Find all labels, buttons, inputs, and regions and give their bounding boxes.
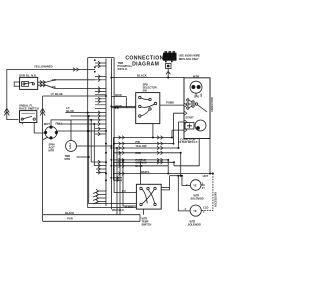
svg-text:4Y: 4Y xyxy=(202,186,205,190)
svg-text:MOT: MOT xyxy=(44,122,51,126)
svg-text:USE 90/200 WIRE: USE 90/200 WIRE xyxy=(179,54,201,58)
svg-text:SPD: SPD xyxy=(194,95,199,98)
svg-text:RED: RED xyxy=(135,151,141,155)
svg-text:YELLOW/RED: YELLOW/RED xyxy=(34,65,53,69)
svg-text:SW N.O.: SW N.O. xyxy=(118,67,129,71)
svg-text:YELLOW: YELLOW xyxy=(135,144,147,148)
svg-text:SOLENOID: SOLENOID xyxy=(188,223,201,226)
svg-text:O-BLK: O-BLK xyxy=(125,205,133,209)
svg-text:BLUE: BLUE xyxy=(66,109,74,113)
svg-text:CLD: CLD xyxy=(203,206,208,210)
svg-text:PU: PU xyxy=(122,189,126,193)
svg-text:BK: BK xyxy=(52,85,56,89)
svg-text:START: START xyxy=(186,116,195,119)
svg-text:WHT-BLK: WHT-BLK xyxy=(112,208,124,212)
svg-text:MTR: MTR xyxy=(193,74,199,78)
svg-text:SWITCH: SWITCH xyxy=(142,224,152,227)
svg-text:REPLACE ONLY: REPLACE ONLY xyxy=(179,57,199,61)
svg-text:BK/R: BK/R xyxy=(115,93,121,97)
svg-text:CAPACITOR: CAPACITOR xyxy=(211,97,214,112)
svg-text:2: 2 xyxy=(203,210,205,214)
svg-text:WHITE: WHITE xyxy=(141,170,150,174)
svg-text:RACE SWITCH: RACE SWITCH xyxy=(19,107,39,111)
svg-text:ACCESSORY: ACCESSORY xyxy=(215,192,218,207)
svg-text:LT. BLUE: LT. BLUE xyxy=(51,92,63,96)
svg-text:4: 4 xyxy=(185,207,187,211)
svg-text:OVR BL. N.O.: OVR BL. N.O. xyxy=(19,74,37,78)
svg-text:PIN: PIN xyxy=(135,140,139,144)
svg-text:FILTER WTR LT.: FILTER WTR LT. xyxy=(178,140,198,144)
svg-text:YE: YE xyxy=(193,209,197,213)
svg-text:PUR: PUR xyxy=(67,217,73,221)
svg-text:DIAGRAM: DIAGRAM xyxy=(132,61,159,67)
svg-text:BLUE: BLUE xyxy=(135,164,142,168)
svg-text:SOLENOID: SOLENOID xyxy=(191,198,204,201)
svg-text:FULL: FULL xyxy=(56,122,63,126)
svg-text:SW: SW xyxy=(143,89,148,93)
svg-text:BLACK: BLACK xyxy=(65,211,74,215)
svg-text:HOT: HOT xyxy=(203,174,209,178)
svg-text:BK/R: BK/R xyxy=(115,104,121,108)
svg-text:MTR: MTR xyxy=(49,149,55,153)
svg-text:BK: BK xyxy=(52,78,56,82)
svg-text:BLACK: BLACK xyxy=(137,74,147,78)
svg-text:MTR: MTR xyxy=(65,157,71,161)
svg-text:YE: YE xyxy=(193,183,197,187)
svg-text:PU/BK: PU/BK xyxy=(166,101,174,105)
